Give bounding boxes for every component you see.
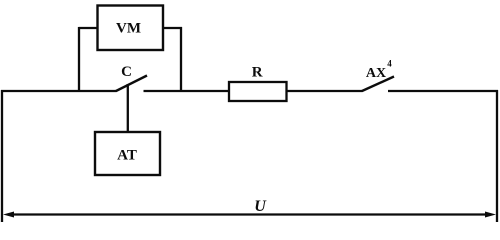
switch C blade [116,76,147,92]
svg-text:C: C [121,64,132,80]
svg-text:U: U [254,198,267,215]
svg-text:AT: AT [117,148,137,164]
wire VM right stub [163,27,182,29]
resistor R [229,82,287,101]
wire segment AX to right [388,90,498,92]
dimension arrowhead left [3,212,14,218]
wire left rail [1,90,3,222]
wire segment C to R [144,90,230,92]
wire main left segment [1,90,117,92]
svg-text:4: 4 [387,59,392,69]
wire VM left stub [79,27,99,29]
wire VM right drop [180,27,182,92]
switch AX blade [362,77,394,92]
svg-text:AX: AX [366,66,386,81]
wire VM left drop [78,27,80,92]
svg-text:R: R [252,65,263,81]
wire right rail [496,90,498,222]
voltmeter VM [98,6,164,51]
wire tap C to AT [127,84,129,133]
device AT [95,132,160,175]
wire segment R to AX [287,90,363,92]
dimension arrowhead right [485,212,496,218]
dimension line U [10,213,489,215]
svg-text:VM: VM [116,21,141,37]
